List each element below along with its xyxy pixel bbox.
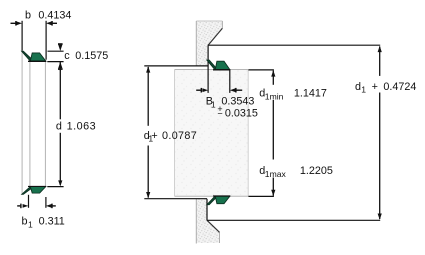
top seal profile (green) bbox=[22, 51, 47, 61]
label +/- 0.0315 bbox=[217, 104, 258, 120]
svg-text:0.3543: 0.3543 bbox=[221, 96, 254, 108]
svg-text:1: 1 bbox=[211, 99, 216, 109]
wall top chamfer bbox=[208, 28, 222, 45]
dimension c extension lines bbox=[48, 50, 64, 52]
dimension d1 tall line bbox=[379, 47, 381, 220]
dimension d1min/d1max line bbox=[272, 71, 274, 196]
svg-text:d: d bbox=[56, 120, 62, 132]
svg-text:0.311: 0.311 bbox=[39, 216, 65, 228]
wall top face + d1bore tick bottom bbox=[144, 198, 207, 200]
seal body side lines bbox=[22, 52, 45, 195]
dimension b1 extension lines bbox=[28, 195, 29, 208]
housing wall top bbox=[196, 21, 222, 66]
shaft surface tick top (d1min ref) bbox=[248, 69, 274, 71]
svg-text:0.0787: 0.0787 bbox=[162, 130, 197, 142]
dimension B1 right extension bbox=[229, 70, 231, 93]
svg-text:0.0315: 0.0315 bbox=[225, 108, 258, 120]
dimension b arrows bbox=[11, 21, 58, 26]
wall bottom face + d1bore tick top bbox=[144, 65, 208, 67]
svg-text:1min: 1min bbox=[265, 91, 284, 101]
shaft body bbox=[175, 70, 249, 197]
bottom seal profile (green, mirrored) bbox=[22, 186, 47, 194]
svg-text:1.1417: 1.1417 bbox=[294, 87, 327, 99]
dimension d1 bore line (left) bbox=[147, 67, 149, 198]
shaft surface tick bottom (d1max ref) bbox=[248, 195, 274, 197]
wall bottom chamfer bbox=[207, 220, 220, 232]
svg-text:b: b bbox=[25, 10, 31, 22]
extension line b right bbox=[46, 21, 47, 60]
svg-text:0.1575: 0.1575 bbox=[75, 50, 108, 62]
svg-text:0.4724: 0.4724 bbox=[383, 81, 416, 93]
svg-text:1max: 1max bbox=[265, 169, 287, 179]
label d1max 1.2205 bbox=[259, 165, 333, 179]
dimension B1 arrows bbox=[196, 88, 242, 93]
svg-text:c: c bbox=[64, 50, 70, 62]
wall counterface (B1 extension left) bbox=[207, 45, 209, 93]
dimension c arrows bbox=[58, 43, 63, 70]
shoulder line bottom (d1 extension) bbox=[207, 219, 380, 221]
svg-text:1.2205: 1.2205 bbox=[300, 165, 333, 177]
dimension d line bbox=[59, 70, 61, 119]
svg-text:0.4134: 0.4134 bbox=[38, 10, 71, 22]
label d1min 1.1417 bbox=[259, 87, 327, 101]
mounted seal top (green) bbox=[207, 60, 231, 70]
svg-text:1.063: 1.063 bbox=[67, 120, 97, 132]
dimension b1 arrows bbox=[17, 204, 56, 209]
extension line d bottom bbox=[47, 186, 63, 188]
mounted seal bottom (green, mirrored) bbox=[207, 196, 231, 205]
label c 0.1575 bbox=[64, 50, 108, 62]
wall counterface bottom bbox=[206, 199, 208, 221]
svg-text:b: b bbox=[22, 216, 28, 228]
svg-text:+: + bbox=[372, 81, 378, 93]
svg-text:−: − bbox=[217, 109, 222, 119]
label d1+ 0.0787 bbox=[144, 130, 197, 144]
extension line b left bbox=[22, 21, 23, 51]
label b1 0.311 bbox=[22, 216, 65, 230]
label B1 0.3543 bbox=[206, 96, 255, 110]
svg-text:+: + bbox=[151, 130, 157, 142]
svg-text:1: 1 bbox=[28, 220, 33, 230]
label d1 + 0.4724 bbox=[355, 81, 416, 95]
label d 1.063 bbox=[56, 120, 96, 132]
svg-text:d: d bbox=[355, 81, 361, 93]
label b 0.4134 bbox=[25, 10, 71, 22]
shoulder line top (d1 extension) bbox=[208, 44, 380, 46]
svg-text:1: 1 bbox=[361, 85, 366, 95]
housing wall bottom bbox=[196, 199, 219, 243]
